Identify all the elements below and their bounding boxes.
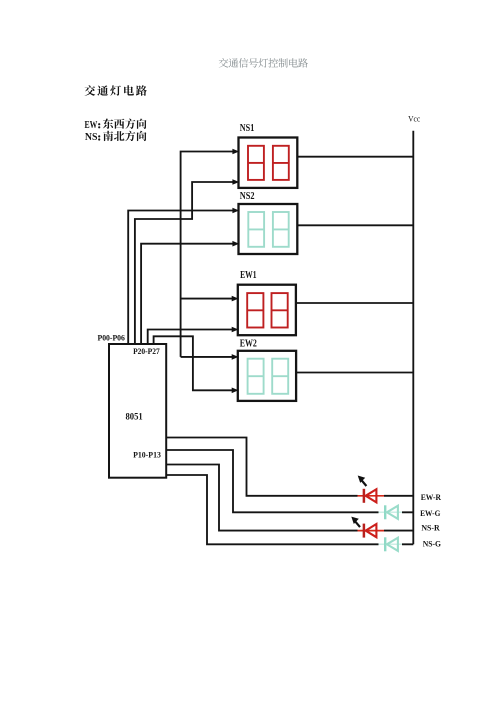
wire P0 bus line to NS2 top pin [128,211,233,345]
node light emission arrow at NS-R [351,517,360,528]
svg-text:NS-R: NS-R [421,523,439,532]
wire P2 pin to EW2 bottom pin [154,336,233,390]
wire junction to EW1 top pin [181,298,233,300]
wire Vcc rail vertical [412,131,414,545]
node heading 交通灯电路 [85,85,147,96]
diode LED NS-R red [358,524,385,538]
node legend NS 南北方向 [85,131,147,143]
svg-text:P10-P13: P10-P13 [133,450,161,460]
wire P10 to LED EW-R row [166,438,413,496]
svg-text:EW1: EW1 [240,270,256,281]
node light emission arrow at EW-R [358,476,367,487]
wire NS2 common pin to Vcc [297,224,413,226]
svg-text:Vcc: Vcc [408,115,420,124]
svg-text:P00-P06: P00-P06 [98,332,126,342]
svg-text:NS2: NS2 [240,191,255,202]
wire EW2 common pin to Vcc [296,372,413,374]
svg-text:EW2: EW2 [240,338,257,349]
node legend EW 东西方向 [85,119,147,131]
wire P12 to LED NS-R row [166,465,413,531]
wire NS1 common pin to Vcc [297,156,413,158]
svg-text:EW: EW [85,120,98,131]
chip U1 8051 microcontroller [109,344,166,478]
diode LED EW-R red [358,489,385,503]
wire P0 bus line to NS1 bottom pin [135,182,233,344]
svg-text:NS: NS [85,132,98,143]
wire to EW2 top pin [181,356,233,358]
diode LED EW-G green [379,505,403,519]
wire P13 to LED NS-G row [166,475,413,544]
diode LED NS-G green [379,537,403,551]
wire EW1 common pin to Vcc [296,302,413,304]
svg-text:EW-G: EW-G [420,509,441,518]
wire common select vertical to NS1 top pin [181,152,233,357]
wire P11 to LED EW-G row [166,450,413,512]
node title text 交通信号灯控制电路 [219,58,308,68]
svg-text:NS-G: NS-G [423,540,442,549]
wire P2 pin to EW1 bottom pin [148,330,233,345]
svg-text:EW-R: EW-R [421,493,441,502]
svg-text:P20-P27: P20-P27 [133,346,160,356]
wire P0 bus line to NS2 bottom pin [141,244,233,344]
svg-text:NS1: NS1 [240,123,255,134]
svg-text:8051: 8051 [126,413,143,423]
